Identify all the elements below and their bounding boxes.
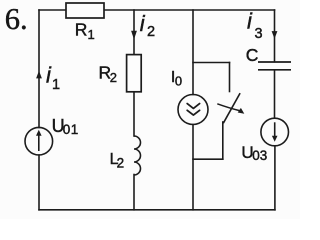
current arrow i2 (131, 31, 137, 40)
svg-text:3: 3 (255, 26, 263, 42)
svg-text:01: 01 (63, 122, 79, 137)
current arrow i3 (272, 31, 278, 39)
wire top (node top rail) (39, 9, 275, 11)
source U03 arrow (274, 122, 276, 136)
wire left upper (38, 10, 40, 128)
wire switch branch horizontal bottom (193, 158, 223, 160)
wire left lower (38, 155, 40, 210)
wire right: capacitor to U03 (274, 71, 276, 119)
wire right: top to capacitor (274, 10, 276, 62)
svg-text:2: 2 (117, 155, 125, 170)
svg-text:2: 2 (147, 24, 155, 40)
svg-text:C: C (246, 45, 259, 65)
current source I0 circle (178, 95, 208, 125)
wire branch2 bottom (133, 175, 135, 210)
svg-text:03: 03 (252, 148, 267, 163)
switch motion arrow (217, 104, 239, 111)
wire switch branch horizontal top (193, 62, 230, 64)
svg-text:0: 0 (175, 74, 182, 89)
current arrow i1 (36, 71, 42, 79)
svg-text:2: 2 (110, 70, 117, 85)
capacitor C plates (258, 62, 291, 70)
wire branch2 between R2 and L2 (133, 92, 135, 136)
wire branch2 top (133, 10, 135, 54)
svg-text:1: 1 (52, 77, 60, 93)
source U01 arrow (38, 135, 40, 152)
switch S1 blade (224, 94, 240, 123)
svg-text:6.: 6. (5, 2, 28, 36)
current source I0 double chevron (187, 104, 199, 116)
resistor R1 (66, 3, 104, 18)
wire switch top terminal (229, 63, 231, 92)
resistor R2 (127, 55, 142, 92)
wire right: U03 to bottom (274, 146, 276, 210)
wire branch3 (I0) top (192, 10, 194, 95)
source U01 circle (25, 127, 53, 155)
wire branch3 (I0) bottom (192, 125, 194, 210)
inductor L2 (134, 136, 141, 175)
wire switch bottom terminal (222, 122, 224, 159)
wire bottom (node bottom rail) (39, 209, 275, 211)
source U03 circle (261, 118, 289, 146)
